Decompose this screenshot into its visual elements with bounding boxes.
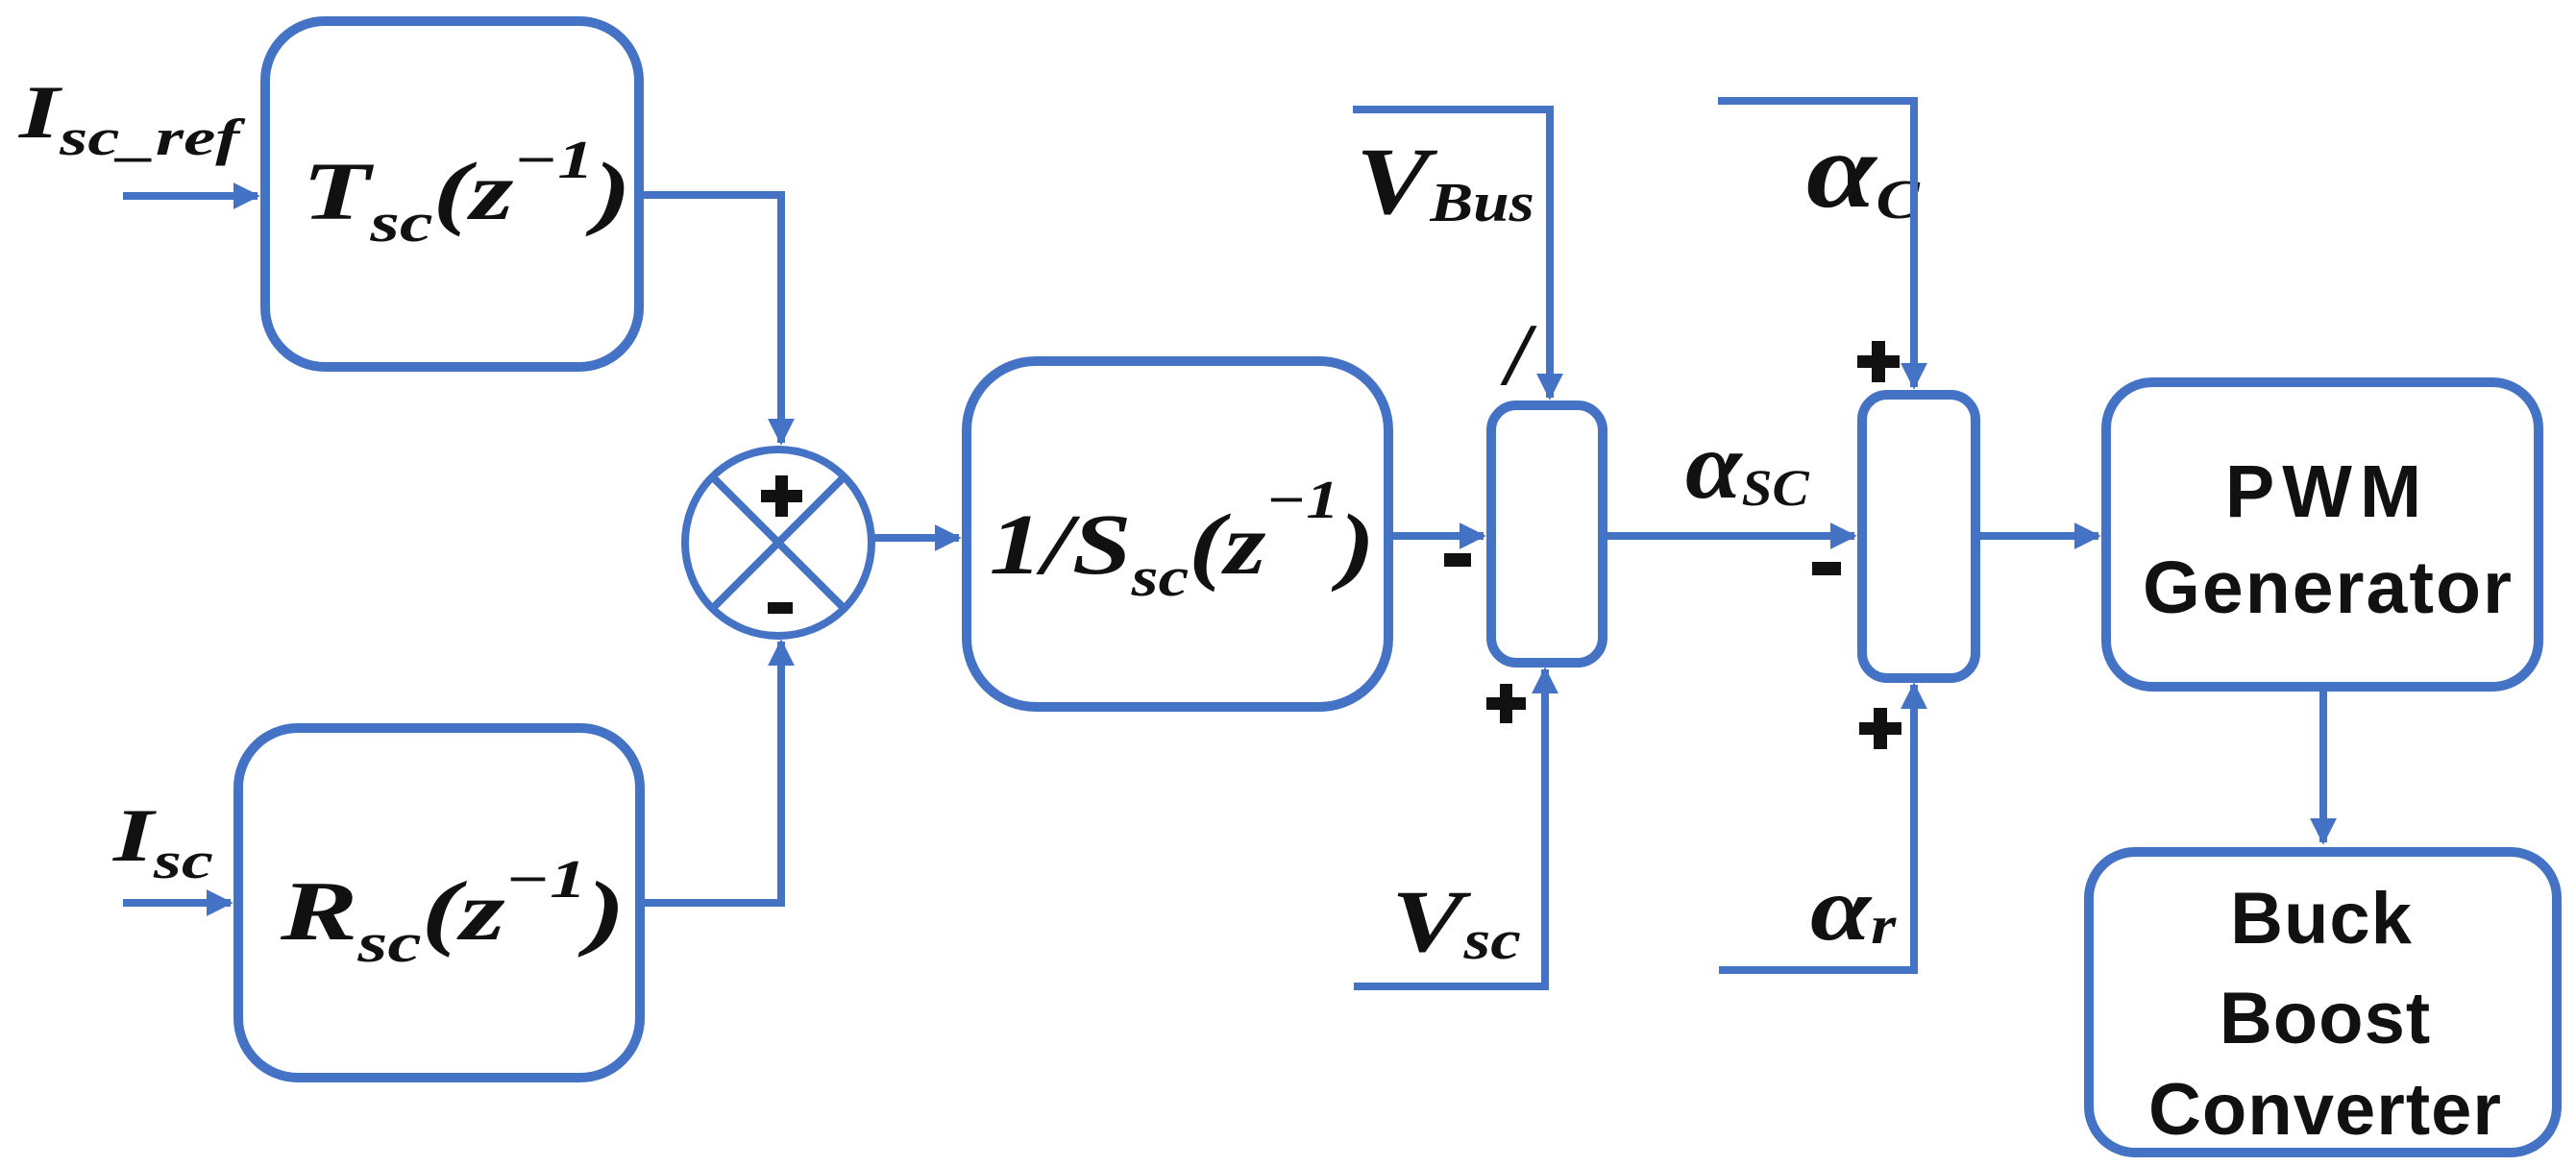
svg-text:Boost: Boost <box>2220 978 2431 1059</box>
label Vsc <box>1391 873 1521 972</box>
divider block <box>1491 405 1603 663</box>
wire PWM to Buck <box>2319 687 2327 842</box>
wire Rsc to summer <box>640 642 781 903</box>
summer circle <box>685 449 871 636</box>
wire divider to summer2 <box>1603 532 1854 540</box>
svg-text:Buck: Buck <box>2230 878 2413 960</box>
svg-text:PWM: PWM <box>2225 450 2429 533</box>
plus below summer2 <box>1859 708 1901 749</box>
label aC <box>1806 111 1921 231</box>
svg-text:Converter: Converter <box>2148 1069 2502 1151</box>
block Rsc <box>238 728 640 1078</box>
block 1/Ssc <box>967 361 1388 707</box>
plus above summer2 <box>1857 341 1900 382</box>
wire Ssc to divider <box>1388 532 1484 540</box>
minus at divider input <box>1444 553 1471 567</box>
label ar <box>1810 858 1897 960</box>
wire aC <box>1718 101 1914 387</box>
summer cross <box>712 476 845 609</box>
wire Vsc <box>1354 669 1545 986</box>
wire ar <box>1719 685 1914 970</box>
block Tsc <box>265 21 639 367</box>
minus at summer2 input <box>1812 562 1841 575</box>
svg-text:Generator: Generator <box>2143 547 2514 629</box>
label Isc <box>112 794 213 889</box>
summer minus <box>768 602 793 614</box>
summer2 block <box>1862 395 1975 678</box>
wire input Isc <box>123 899 231 907</box>
wire summer to Ssc <box>873 534 959 542</box>
label Isc_ref <box>18 71 247 166</box>
plus below divider <box>1486 684 1526 723</box>
label 1/Ssc(z^-1) <box>990 470 1375 608</box>
label Rsc(z^-1) <box>280 849 626 974</box>
wire VBus <box>1353 109 1550 398</box>
label aSC <box>1685 413 1810 520</box>
wire Tsc to summer <box>639 195 781 443</box>
summer plus <box>761 475 802 517</box>
block Buck <box>2089 852 2557 1153</box>
wire input Isc_ref <box>123 192 258 200</box>
block PWM <box>2106 382 2539 687</box>
wire summer2 to PWM <box>1975 532 2098 540</box>
label VBus <box>1356 129 1534 234</box>
label Tsc(z^-1) <box>303 131 631 253</box>
